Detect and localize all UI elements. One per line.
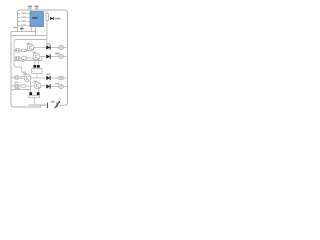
wire row2 link line y60: [14, 57, 42, 61]
label near D3 row: [55, 83, 59, 85]
wire inner frame: [14, 40, 47, 68]
label Q4: [34, 81, 37, 83]
buzzer LS1 legs: [35, 60, 39, 65]
resistor R3: [22, 57, 26, 59]
net label: [22, 72, 26, 73]
connector J7 right: [59, 76, 68, 80]
connector J3 left: [11, 76, 21, 79]
IC top pin labels: [28, 6, 39, 9]
resistor R4: [21, 76, 25, 78]
wire to Q2: [26, 57, 33, 59]
diode D3: [46, 74, 58, 81]
wire Q2 to diode D2: [40, 56, 46, 58]
wire top rail and right frame: [18, 10, 68, 105]
label Q1: [27, 43, 30, 45]
resistor R5: [21, 85, 25, 87]
wire stub from IC bottom pin 1: [31, 27, 33, 32]
connector J1 left: [14, 49, 22, 52]
diode D4: [46, 84, 58, 88]
label Q3: [24, 73, 27, 75]
wire Q1 to diode D1: [34, 47, 46, 49]
label for LED: [55, 18, 61, 20]
transducer X1 pads: [29, 92, 32, 95]
wire bottom-left branch: [11, 90, 29, 93]
battery BT1 plate long: [47, 103, 49, 109]
arrowhead on battery arrow: [58, 101, 60, 103]
wire resistor branch vertical: [46, 10, 48, 48]
wire battery to frame: [58, 104, 59, 106]
connector J6 right: [59, 55, 68, 59]
connector J8 right: [59, 85, 68, 89]
wire node line y35: [11, 35, 47, 37]
wire stub below inner frame: [21, 67, 23, 71]
transistor Q4: [34, 82, 41, 89]
wire Q3 down to pad: [30, 81, 32, 92]
transistor Q3: [24, 75, 31, 82]
IC top pins: [31, 9, 37, 12]
connector J2 left: [14, 56, 22, 59]
buzzer LS1 body: [32, 69, 43, 74]
LED D0 icon: [50, 17, 53, 20]
battery label 9V: [51, 101, 55, 103]
diode D2: [46, 53, 59, 59]
label left J4: [14, 82, 19, 83]
wire X1 to bottom rail: [34, 98, 36, 105]
wire Q4 down to pad: [37, 89, 39, 92]
label S1: [13, 27, 17, 28]
wire Q3 to diode D3: [31, 77, 46, 79]
battery BT1 plate short with arrow: [55, 101, 61, 108]
wire buzzer to row3: [36, 74, 38, 78]
diode D1: [46, 43, 58, 50]
connector J4 left: [11, 84, 21, 87]
connector J5 right: [59, 46, 68, 50]
wire stub from IC bottom pin 2: [35, 27, 37, 36]
buzzer LS1 pads: [34, 65, 37, 68]
wire node bus line y31: [11, 31, 36, 33]
transducer X1 body: [29, 95, 40, 98]
label Q2: [33, 52, 36, 54]
IC U1: [30, 12, 44, 27]
wire to Q1: [26, 49, 29, 51]
IC left pins: [18, 14, 31, 26]
transistor Q2: [33, 53, 40, 60]
wire outer left frame and bottom: [11, 32, 47, 108]
switch S1: [20, 27, 24, 32]
transistor Q1: [27, 44, 34, 51]
IC left pin labels: [22, 13, 27, 26]
label bottom-left: [15, 88, 20, 89]
resistor R1: [46, 14, 48, 21]
wire Q4 to diode D4: [41, 85, 46, 87]
node junction dot: [22, 60, 24, 62]
resistor R2: [22, 49, 26, 51]
